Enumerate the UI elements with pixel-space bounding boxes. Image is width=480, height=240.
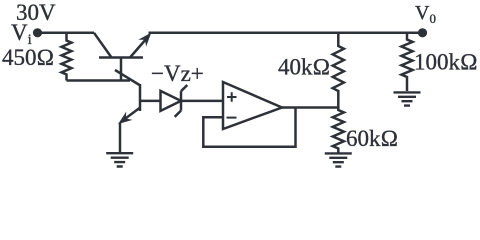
ground G3 under 100k xyxy=(394,92,421,105)
resistor R1 450ohm xyxy=(62,34,72,81)
feedback wire U1 output to inverting input xyxy=(203,108,295,147)
wire Vi top segment xyxy=(40,32,94,35)
resistor R2 40k xyxy=(333,34,344,108)
svg-text:450Ω: 450Ω xyxy=(2,45,54,70)
transistor Q2 xyxy=(139,84,142,111)
node Vi dot xyxy=(33,28,42,37)
resistor R3 60k xyxy=(333,108,344,153)
Q1 emitter arrowhead xyxy=(138,33,151,47)
node Vo dot xyxy=(418,28,427,37)
wire U1 output to divider node xyxy=(282,106,340,109)
transistor Q1 xyxy=(99,56,143,59)
op-amp U1 xyxy=(223,82,282,129)
svg-text:40kΩ: 40kΩ xyxy=(278,55,330,80)
wire Q2 emitter to ground xyxy=(119,123,122,153)
ground G2 under 60k xyxy=(325,153,352,166)
Q2 emitter arrowhead xyxy=(118,112,132,125)
svg-text:V0: V0 xyxy=(415,2,436,26)
svg-text:−Vz+: −Vz+ xyxy=(151,61,204,86)
wire R1 bottom to Q1 base xyxy=(67,79,131,82)
wire diagonal Vi to Q1 collector xyxy=(94,33,112,58)
svg-text:100kΩ: 100kΩ xyxy=(414,50,478,75)
wire zener to op-amp + input xyxy=(181,100,223,103)
zener diode D1 xyxy=(161,91,182,111)
ground G1 under Q2 emitter xyxy=(106,153,133,166)
top rail to Vo xyxy=(149,32,423,35)
svg-text:60kΩ: 60kΩ xyxy=(346,126,398,151)
op-amp plus sign xyxy=(227,92,237,102)
resistor R4 100k xyxy=(401,34,412,91)
op-amp minus sign xyxy=(227,117,237,119)
